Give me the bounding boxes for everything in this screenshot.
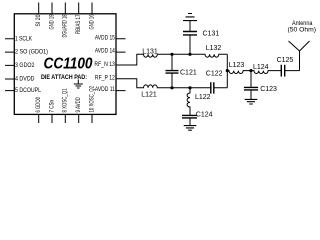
- svg-text:L131: L131: [142, 48, 158, 55]
- svg-text:10 XOSC_Q2: 10 XOSC_Q2: [88, 86, 95, 113]
- svg-text:L121: L121: [141, 91, 157, 98]
- svg-text:1 SCLK: 1 SCLK: [15, 35, 32, 42]
- svg-text:AVDD 15: AVDD 15: [95, 34, 115, 41]
- svg-text:RF_N 13: RF_N 13: [94, 61, 115, 68]
- svg-text:C124: C124: [196, 112, 213, 119]
- svg-text:4 DVDD: 4 DVDD: [15, 76, 35, 83]
- svg-text:8 XOSC_Q1: 8 XOSC_Q1: [62, 88, 69, 112]
- svg-text:(50 Ohm): (50 Ohm): [288, 26, 317, 33]
- svg-text:2 SO (GDO1): 2 SO (GDO1): [15, 49, 48, 56]
- svg-text:DGUARD 18: DGUARD 18: [62, 14, 69, 37]
- svg-text:RF_P 12: RF_P 12: [95, 75, 116, 82]
- svg-text:C123: C123: [260, 86, 277, 93]
- svg-text:GND 16: GND 16: [88, 14, 95, 29]
- svg-text:C125: C125: [277, 57, 294, 64]
- svg-text:L124: L124: [253, 64, 269, 71]
- svg-text:AVDD 14: AVDD 14: [95, 48, 115, 55]
- svg-text:5 DCOUPL: 5 DCOUPL: [15, 87, 42, 94]
- svg-text:C131: C131: [203, 31, 220, 38]
- svg-text:6 GDO0: 6 GDO0: [35, 97, 42, 113]
- svg-text:L122: L122: [195, 94, 211, 101]
- svg-text:C122: C122: [206, 71, 223, 78]
- svg-text:3 GDO2: 3 GDO2: [15, 62, 35, 69]
- svg-text:GND 19: GND 19: [48, 14, 55, 29]
- svg-text:SI 20: SI 20: [35, 14, 42, 27]
- svg-text:L132: L132: [206, 45, 222, 52]
- svg-text:CC1100: CC1100: [44, 56, 93, 73]
- svg-text:7 CSn: 7 CSn: [48, 100, 55, 113]
- svg-text:RBIAS 17: RBIAS 17: [75, 14, 82, 34]
- svg-text:AVDD 11: AVDD 11: [95, 86, 115, 93]
- svg-text:C121: C121: [180, 69, 197, 76]
- svg-text:9 AVDD: 9 AVDD: [75, 97, 82, 113]
- svg-text:DIE ATTACH PAD:: DIE ATTACH PAD:: [41, 74, 87, 81]
- svg-text:L123: L123: [229, 62, 245, 69]
